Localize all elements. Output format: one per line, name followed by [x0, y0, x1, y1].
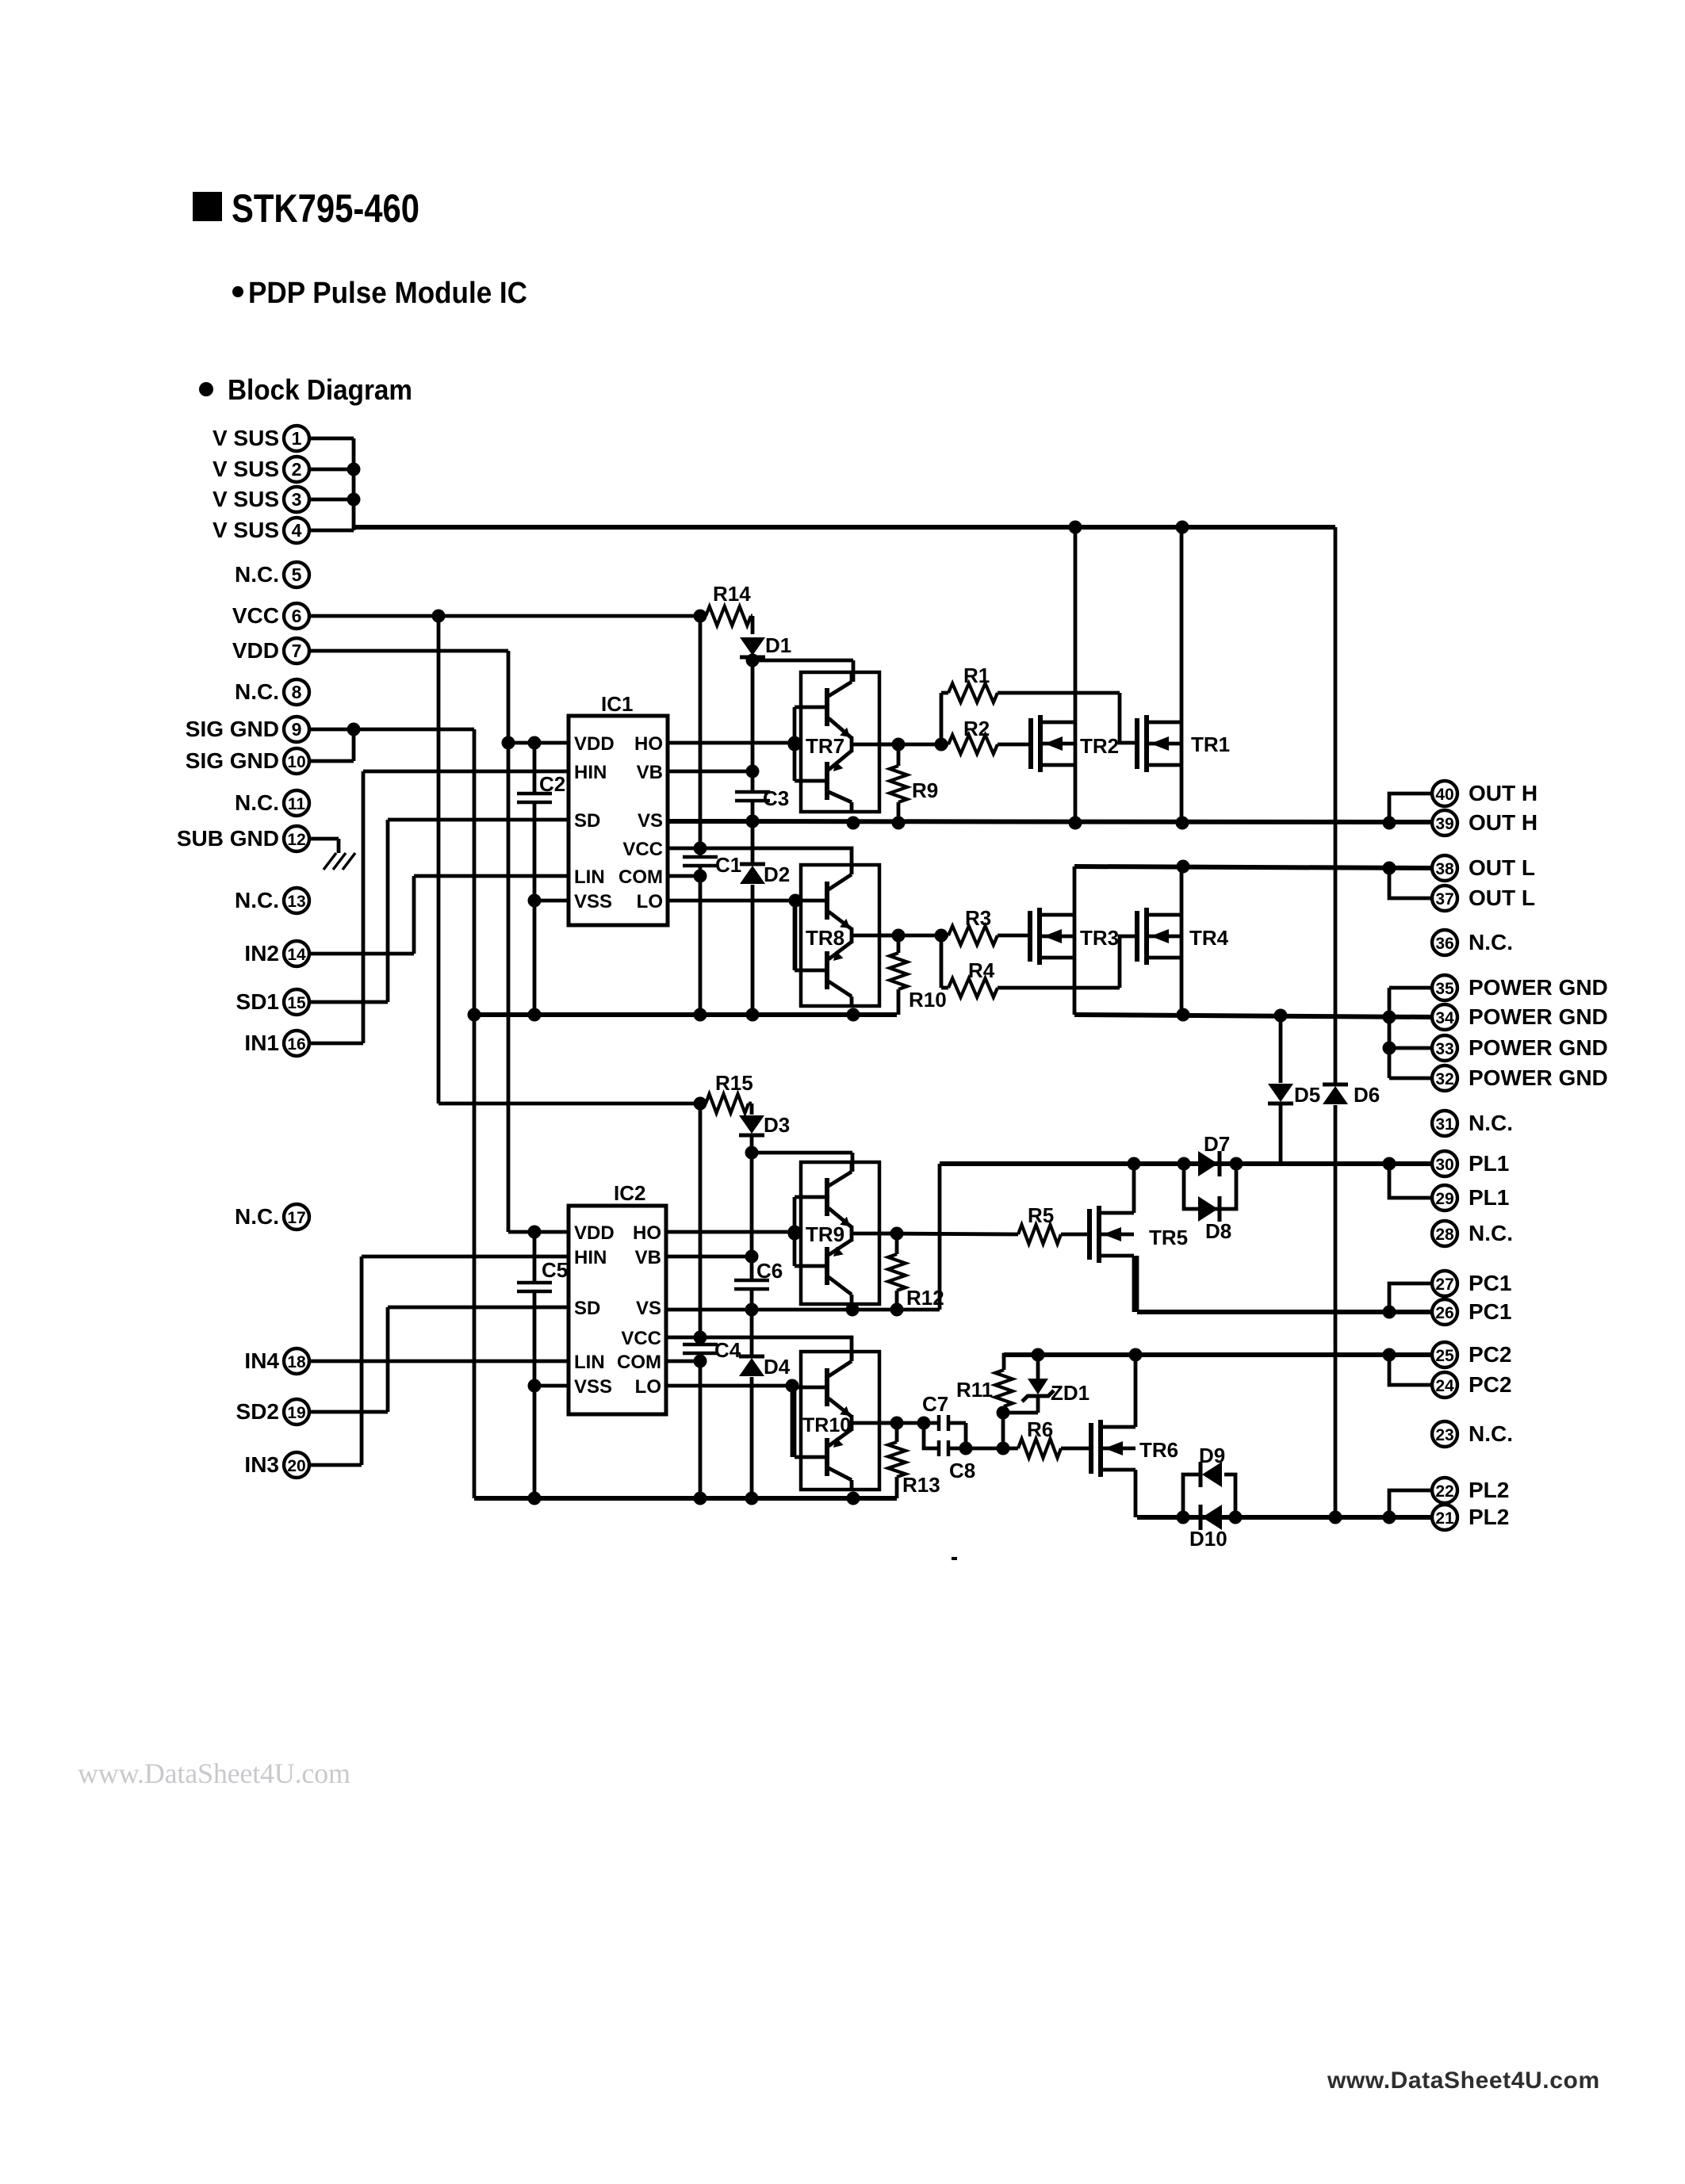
svg-text:N.C.: N.C. — [1469, 930, 1513, 954]
svg-text:VDD: VDD — [574, 733, 615, 755]
svg-text:PC2: PC2 — [1469, 1372, 1511, 1397]
svg-text:PL2: PL2 — [1469, 1478, 1509, 1502]
svg-text:SD2: SD2 — [236, 1399, 279, 1424]
svg-text:HIN: HIN — [574, 1247, 607, 1268]
svg-text:POWER GND: POWER GND — [1469, 975, 1608, 1000]
svg-text:COM: COM — [618, 866, 663, 888]
svg-text:LIN: LIN — [574, 1352, 605, 1373]
svg-text:9: 9 — [292, 719, 302, 740]
svg-text:IN1: IN1 — [244, 1031, 279, 1055]
svg-text:27: 27 — [1435, 1276, 1453, 1294]
svg-text:D9: D9 — [1199, 1444, 1225, 1467]
svg-text:R13: R13 — [902, 1473, 940, 1497]
svg-text:TR2: TR2 — [1080, 734, 1119, 758]
svg-text:16: 16 — [287, 1035, 305, 1054]
svg-text:C5: C5 — [542, 1258, 568, 1282]
svg-text:39: 39 — [1435, 815, 1453, 833]
svg-text:N.C.: N.C. — [235, 1204, 279, 1229]
svg-text:D2: D2 — [764, 863, 790, 886]
svg-text:PC2: PC2 — [1469, 1342, 1511, 1367]
svg-text:N.C.: N.C. — [235, 888, 279, 912]
svg-text:38: 38 — [1435, 860, 1454, 878]
svg-text:HO: HO — [633, 1222, 661, 1244]
svg-text:PC1: PC1 — [1469, 1271, 1511, 1295]
svg-text:C8: C8 — [949, 1459, 975, 1482]
svg-text:COM: COM — [617, 1352, 661, 1373]
svg-text:OUT H: OUT H — [1469, 781, 1538, 805]
svg-text:19: 19 — [287, 1404, 305, 1422]
svg-text:R15: R15 — [715, 1071, 753, 1095]
svg-text:LIN: LIN — [574, 866, 605, 888]
svg-text:LO: LO — [637, 891, 663, 912]
svg-text:STK795-460: STK795-460 — [232, 186, 419, 231]
svg-text:6: 6 — [292, 606, 302, 626]
svg-text:VCC: VCC — [622, 839, 663, 860]
svg-text:3: 3 — [292, 489, 302, 510]
svg-text:TR1: TR1 — [1191, 732, 1230, 756]
svg-text:C3: C3 — [763, 786, 789, 810]
svg-text:TR3: TR3 — [1080, 926, 1119, 950]
svg-text:Block Diagram: Block Diagram — [228, 373, 412, 406]
svg-text:LO: LO — [635, 1376, 661, 1398]
svg-text:36: 36 — [1435, 935, 1453, 953]
svg-text:N.C.: N.C. — [235, 562, 279, 587]
svg-text:C6: C6 — [756, 1259, 783, 1283]
svg-text:C1: C1 — [715, 853, 741, 877]
svg-text:8: 8 — [292, 682, 302, 702]
svg-text:TR8: TR8 — [806, 926, 844, 950]
svg-text:PL2: PL2 — [1469, 1505, 1509, 1529]
svg-text:R11: R11 — [956, 1378, 993, 1402]
svg-text:R6: R6 — [1027, 1417, 1053, 1441]
svg-text:HO: HO — [634, 733, 663, 755]
svg-text:IN2: IN2 — [244, 941, 279, 966]
svg-text:N.C.: N.C. — [235, 790, 279, 815]
svg-text:TR7: TR7 — [806, 734, 844, 758]
svg-text:12: 12 — [287, 831, 305, 849]
svg-text:24: 24 — [1435, 1377, 1454, 1395]
svg-text:22: 22 — [1435, 1482, 1453, 1501]
svg-text:D8: D8 — [1205, 1219, 1231, 1243]
svg-text:OUT L: OUT L — [1469, 855, 1535, 880]
svg-text:R10: R10 — [909, 988, 947, 1012]
svg-text:VSS: VSS — [574, 891, 612, 912]
svg-text:40: 40 — [1435, 786, 1453, 804]
svg-text:VS: VS — [636, 1298, 661, 1319]
svg-text:C2: C2 — [539, 772, 565, 796]
svg-text:N.C.: N.C. — [1469, 1221, 1513, 1245]
svg-text:IN3: IN3 — [244, 1452, 279, 1477]
svg-text:7: 7 — [292, 641, 302, 661]
svg-text:SD1: SD1 — [236, 989, 279, 1014]
svg-text:IC1: IC1 — [601, 692, 633, 716]
svg-text:TR10: TR10 — [802, 1414, 851, 1436]
svg-text:37: 37 — [1435, 890, 1453, 908]
svg-text:20: 20 — [287, 1457, 305, 1475]
svg-text:ZD1: ZD1 — [1051, 1381, 1090, 1405]
svg-text:PL1: PL1 — [1469, 1151, 1509, 1176]
svg-text:VDD: VDD — [574, 1222, 615, 1244]
svg-text:D4: D4 — [764, 1355, 791, 1379]
svg-text:V SUS: V SUS — [213, 457, 279, 481]
svg-text:V SUS: V SUS — [213, 426, 279, 450]
svg-text:R2: R2 — [963, 717, 990, 740]
svg-text:SUB GND: SUB GND — [177, 826, 279, 851]
svg-text:OUT L: OUT L — [1469, 885, 1535, 910]
svg-text:2: 2 — [292, 459, 302, 480]
svg-text:28: 28 — [1435, 1226, 1454, 1244]
svg-text:35: 35 — [1435, 980, 1454, 998]
svg-text:D10: D10 — [1189, 1527, 1227, 1551]
svg-text:POWER GND: POWER GND — [1469, 1004, 1608, 1029]
svg-text:PC1: PC1 — [1469, 1299, 1511, 1324]
svg-text:VCC: VCC — [232, 603, 279, 628]
svg-text:PDP Pulse Module IC: PDP Pulse Module IC — [248, 277, 527, 310]
svg-text:N.C.: N.C. — [235, 679, 279, 704]
svg-text:11: 11 — [288, 795, 306, 813]
svg-text:IN4: IN4 — [244, 1348, 279, 1373]
svg-text:31: 31 — [1435, 1115, 1454, 1134]
svg-text:30: 30 — [1435, 1156, 1453, 1174]
svg-text:32: 32 — [1435, 1070, 1453, 1088]
svg-text:33: 33 — [1435, 1040, 1453, 1058]
svg-text:VSS: VSS — [574, 1376, 612, 1398]
svg-text:R1: R1 — [963, 664, 990, 687]
svg-text:29: 29 — [1435, 1190, 1453, 1208]
svg-text:N.C.: N.C. — [1469, 1111, 1513, 1135]
svg-text:www.DataSheet4U.com: www.DataSheet4U.com — [78, 1758, 350, 1789]
svg-text:21: 21 — [1435, 1509, 1454, 1528]
svg-text:13: 13 — [287, 893, 305, 911]
svg-text:TR5: TR5 — [1149, 1226, 1188, 1249]
svg-text:23: 23 — [1435, 1426, 1453, 1444]
svg-text:R4: R4 — [968, 958, 995, 982]
svg-text:18: 18 — [287, 1353, 306, 1371]
svg-text:14: 14 — [287, 946, 306, 964]
svg-text:C7: C7 — [922, 1392, 948, 1416]
svg-text:D6: D6 — [1354, 1083, 1380, 1107]
svg-text:VCC: VCC — [621, 1328, 661, 1349]
svg-text:17: 17 — [287, 1209, 305, 1227]
svg-text:POWER GND: POWER GND — [1469, 1065, 1608, 1090]
svg-text:34: 34 — [1435, 1009, 1454, 1027]
svg-text:25: 25 — [1435, 1347, 1454, 1365]
svg-text:D1: D1 — [765, 633, 791, 657]
svg-text:SD: SD — [574, 810, 600, 832]
svg-text:HIN: HIN — [574, 762, 607, 783]
svg-text:VS: VS — [638, 810, 663, 832]
svg-text:R14: R14 — [713, 582, 751, 606]
svg-text:D3: D3 — [764, 1113, 790, 1137]
svg-text:10: 10 — [287, 753, 305, 771]
svg-text:V SUS: V SUS — [213, 487, 279, 511]
svg-text:4: 4 — [292, 520, 302, 541]
svg-text:PL1: PL1 — [1469, 1185, 1509, 1210]
svg-text:N.C.: N.C. — [1469, 1421, 1513, 1446]
svg-text:15: 15 — [287, 994, 306, 1012]
svg-text:SIG GND: SIG GND — [186, 748, 279, 773]
svg-text:D7: D7 — [1204, 1132, 1230, 1156]
svg-text:R12: R12 — [906, 1286, 944, 1310]
svg-text:POWER GND: POWER GND — [1469, 1035, 1608, 1060]
svg-text:VB: VB — [635, 1247, 661, 1268]
svg-text:5: 5 — [292, 564, 302, 585]
svg-text:V SUS: V SUS — [213, 518, 279, 542]
svg-text:1: 1 — [292, 428, 302, 449]
svg-text:VDD: VDD — [232, 638, 279, 663]
svg-text:VB: VB — [637, 762, 663, 783]
svg-text:C4: C4 — [714, 1338, 741, 1362]
svg-text:SD: SD — [574, 1298, 600, 1319]
svg-text:TR9: TR9 — [806, 1222, 844, 1246]
svg-text:R3: R3 — [965, 906, 991, 930]
svg-text:OUT H: OUT H — [1469, 810, 1538, 835]
svg-text:TR4: TR4 — [1189, 926, 1229, 950]
svg-text:R9: R9 — [912, 778, 938, 802]
svg-text:IC2: IC2 — [614, 1181, 645, 1205]
svg-text:26: 26 — [1435, 1304, 1453, 1322]
svg-text:SIG GND: SIG GND — [186, 717, 279, 741]
svg-text:TR6: TR6 — [1139, 1438, 1178, 1462]
svg-text:D5: D5 — [1294, 1083, 1320, 1107]
svg-text:www.DataSheet4U.com: www.DataSheet4U.com — [1327, 2067, 1600, 2094]
svg-text:R5: R5 — [1028, 1203, 1054, 1227]
